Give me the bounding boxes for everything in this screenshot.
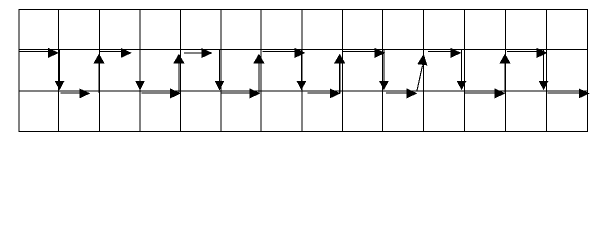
path step 8: arrow up	[173, 54, 184, 93]
grid vertical line 1	[58, 10, 60, 132]
outer border of grid	[19, 10, 588, 132]
lattice-path diagram: grid with staircase of arrows	[0, 0, 613, 152]
path step 14: arrow down	[297, 50, 307, 90]
path step 20: slanted arrow up	[417, 54, 427, 91]
grid vertical line 11	[463, 10, 465, 132]
path step 4: arrow up	[93, 54, 104, 93]
path step 22: arrow down	[457, 50, 467, 90]
path step 17: arrow right along upper line	[343, 48, 386, 58]
path step 13: arrow right along upper line	[263, 48, 306, 58]
grid vertical line 12	[504, 10, 506, 132]
path step 3: arrow right along lower line	[60, 88, 90, 98]
upper level grid line	[19, 48, 588, 50]
path step 21: arrow right along upper line	[428, 48, 461, 58]
path step 15: arrow right along lower line	[308, 88, 341, 98]
grid vertical line 9	[382, 10, 384, 132]
path step 23: arrow right along lower line	[464, 88, 505, 98]
grid vertical line 10	[422, 10, 424, 132]
grid vertical line 7	[301, 10, 303, 132]
path step 16: arrow up	[334, 54, 345, 93]
path step 10: arrow down	[215, 50, 225, 90]
path step 27: arrow right along lower line	[548, 88, 590, 98]
path step 5: arrow right along upper line	[100, 48, 132, 58]
path step 7: arrow right along lower line	[141, 88, 181, 98]
grid vertical line 2	[98, 10, 100, 132]
grid vertical line 4	[180, 10, 182, 132]
path step 9: arrow right along upper line	[184, 48, 213, 58]
grid vertical line 13	[545, 10, 547, 132]
path step 12: arrow up	[253, 54, 264, 93]
path step 26: arrow down	[539, 50, 549, 90]
path step 1: arrow right along upper line	[20, 48, 59, 58]
path step 18: arrow down	[379, 50, 389, 90]
lower level grid line	[19, 90, 588, 92]
path step 6: arrow down	[135, 50, 145, 90]
path step 19: arrow right along lower line	[386, 88, 418, 98]
grid vertical line 5	[220, 10, 222, 132]
path step 25: arrow right along upper line	[507, 48, 548, 58]
grid vertical line 8	[341, 10, 343, 132]
grid vertical line 6	[260, 10, 262, 132]
grid vertical line 3	[139, 10, 141, 132]
path step 24: arrow up	[499, 54, 510, 93]
path step 2: arrow down	[55, 50, 65, 90]
path step 11: arrow right along lower line	[222, 88, 261, 98]
